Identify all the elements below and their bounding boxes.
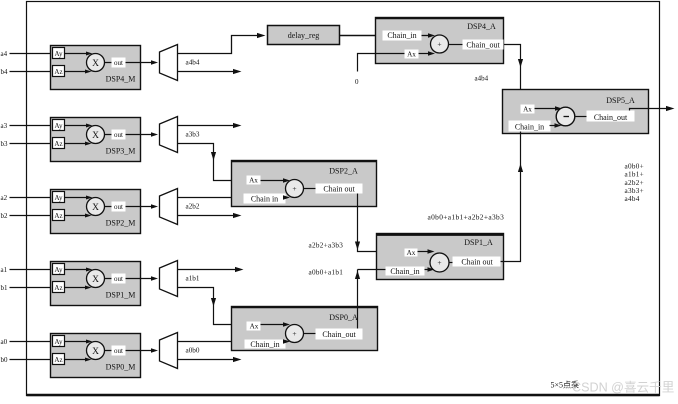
port out — [112, 346, 126, 356]
svg-text:a3b3+: a3b3+ — [625, 187, 645, 195]
wire a1b1 to DSP0_A Ax — [178, 288, 247, 325]
port Ay — [53, 48, 65, 59]
svg-text:Ay: Ay — [55, 194, 63, 202]
svg-text:DSP3_M: DSP3_M — [106, 147, 136, 156]
wire a4b4 mux bottom stub — [178, 71, 238, 73]
svg-text:Az: Az — [54, 284, 62, 292]
wire multiplier to out and mux — [105, 206, 154, 208]
adder + of DSP2_A — [286, 180, 304, 198]
wire multiplier to out and mux — [105, 62, 154, 64]
wire adder to Chain_out — [449, 44, 463, 46]
svg-text:DSP2_M: DSP2_M — [106, 219, 136, 228]
svg-text:DSP1_A: DSP1_A — [464, 238, 493, 247]
wire Ay to multiplier — [65, 269, 90, 271]
port Ax of DSP4_A — [405, 50, 419, 59]
mux 3 — [160, 117, 178, 153]
wire Chain_in to adder — [550, 125, 559, 127]
wire delay_reg to DSP4_A Chain_in — [340, 35, 383, 37]
mux 0 — [160, 333, 178, 369]
wire Chain_in to adder — [425, 269, 432, 271]
wire a0b0 to DSP0_A Chain_in — [178, 341, 245, 343]
svg-text:a0b0: a0b0 — [186, 347, 200, 355]
wire Az to multiplier — [65, 215, 89, 217]
wire adder to Chain_out — [304, 188, 316, 190]
svg-text:a3b3: a3b3 — [186, 131, 200, 139]
svg-text:DSP5_A: DSP5_A — [606, 96, 635, 105]
svg-text:a4b4: a4b4 — [475, 75, 489, 83]
svg-text:a1: a1 — [1, 266, 8, 274]
wire a3 to Ay — [10, 125, 53, 127]
mux 2 — [160, 189, 178, 225]
wire Chain_in to adder — [422, 35, 432, 37]
svg-text:Ay: Ay — [55, 338, 63, 346]
wire DSP5_A Chain_out to result output — [630, 109, 671, 111]
svg-text:Ax: Ax — [250, 322, 259, 330]
svg-text:X: X — [92, 59, 99, 69]
port Chain_out of DSP2_A — [316, 184, 363, 194]
DSP multiplier block DSP0_M — [51, 334, 141, 378]
DSP multiplier block DSP3_M — [51, 118, 141, 162]
wire Ay to multiplier — [65, 53, 90, 55]
svg-text:b1: b1 — [1, 284, 9, 292]
port Ay — [53, 336, 65, 347]
port out — [112, 274, 126, 284]
adder block DSP5_A — [503, 90, 649, 134]
svg-text:X: X — [92, 347, 99, 357]
wire Ay to multiplier — [65, 197, 90, 199]
wire Az to multiplier — [65, 359, 89, 361]
port out — [112, 58, 126, 68]
wire Ax to adder — [418, 251, 432, 253]
port Ay — [53, 192, 65, 203]
svg-text:0: 0 — [355, 78, 359, 86]
DSP multiplier block DSP2_M — [51, 190, 141, 234]
port Ay — [53, 120, 65, 131]
svg-text:b2: b2 — [1, 212, 9, 220]
svg-text:Ax: Ax — [407, 249, 416, 257]
svg-text:Az: Az — [54, 356, 62, 364]
svg-text:Ay: Ay — [55, 266, 63, 274]
adder + of DSP0_A — [286, 325, 304, 343]
DSP multiplier block DSP1_M — [51, 262, 141, 306]
wire Ax to adder — [261, 180, 287, 182]
svg-text:a2b2+a3b3: a2b2+a3b3 — [309, 241, 344, 249]
port Az — [53, 210, 65, 221]
port Az — [53, 66, 65, 77]
wire a0 to Ay — [10, 341, 53, 343]
svg-text:Ax: Ax — [249, 177, 258, 185]
port Chain_out of DSP4_A — [463, 40, 504, 50]
svg-text:a2: a2 — [1, 194, 8, 202]
wire b4 to Az — [10, 71, 53, 73]
multiplier X of DSP3_M — [87, 126, 105, 144]
wire adder to Chain_out — [450, 262, 453, 264]
svg-text:Ay: Ay — [55, 50, 63, 58]
port Ax of DSP0_A — [247, 322, 261, 331]
port Az — [53, 354, 65, 365]
wire a2 to Ay — [10, 197, 53, 199]
svg-text:CSDN @喜云千里: CSDN @喜云千里 — [572, 381, 674, 395]
port Chain_out of DSP5_A — [587, 111, 635, 122]
wire DSP1_A Chain_out up to DSP5_A Chain_in — [501, 132, 521, 262]
svg-text:a0b0+: a0b0+ — [625, 163, 645, 171]
svg-text:Ax: Ax — [407, 51, 416, 59]
multiplier X of DSP1_M — [87, 270, 105, 288]
svg-text:a0b0+a1b1+a2b2+a3b3: a0b0+a1b1+a2b2+a3b3 — [428, 212, 505, 221]
wire a2b2 to DSP2_A Chain_in — [178, 197, 244, 199]
svg-text:DSP0_M: DSP0_M — [106, 363, 136, 372]
port Chain_out of DSP1_A — [453, 257, 501, 267]
svg-text:DSP0_A: DSP0_A — [329, 313, 358, 322]
multiplier X of DSP2_M — [87, 198, 105, 216]
wire a1 to Ay — [10, 269, 53, 271]
svg-text:Chain_in: Chain_in — [387, 31, 416, 40]
wire Ax to adder — [419, 53, 432, 55]
svg-text:Chain_in: Chain_in — [515, 122, 544, 131]
svg-text:Chain_out: Chain_out — [466, 40, 500, 49]
svg-text:Chain_out: Chain_out — [594, 113, 628, 122]
wire Ay to multiplier — [65, 125, 90, 127]
svg-text:+: + — [292, 329, 296, 338]
svg-text:a0b0+a1b1: a0b0+a1b1 — [309, 269, 344, 277]
svg-text:a1b1+: a1b1+ — [625, 171, 645, 179]
svg-text:Az: Az — [54, 68, 62, 76]
svg-text:+: + — [437, 40, 441, 49]
wire b1 to Az — [10, 287, 53, 289]
wire adder to Chain_out — [576, 116, 587, 118]
multiplier X of DSP4_M — [87, 54, 105, 72]
adder + of DSP4_A — [431, 35, 449, 53]
wire Ax to adder — [261, 324, 287, 326]
svg-text:DSP1_M: DSP1_M — [106, 291, 136, 300]
svg-text:out: out — [114, 347, 123, 355]
mux 4 — [160, 45, 178, 81]
port Ax of DSP2_A — [247, 176, 261, 185]
wire b3 to Az — [10, 143, 53, 145]
svg-text:Ay: Ay — [55, 122, 63, 130]
svg-text:a3: a3 — [1, 122, 8, 130]
svg-text:a2b2: a2b2 — [186, 203, 200, 211]
port out — [112, 202, 126, 212]
svg-text:Chain_out: Chain_out — [322, 330, 356, 339]
port Ax of DSP1_A — [405, 249, 418, 257]
adder + of DSP1_A — [430, 253, 449, 272]
svg-text:out: out — [114, 131, 123, 139]
adder block DSP4_A — [376, 18, 504, 64]
svg-text:Az: Az — [54, 212, 62, 220]
svg-text:b0: b0 — [1, 356, 9, 364]
adder of DSP5_A — [556, 107, 575, 126]
svg-text:+: + — [292, 184, 296, 193]
wire Az to multiplier — [65, 143, 89, 145]
wire a3b3 mux top stub — [178, 125, 238, 127]
svg-text:Ax: Ax — [523, 105, 532, 113]
svg-text:Chain_in: Chain_in — [390, 267, 419, 276]
svg-text:Chain_in: Chain_in — [250, 340, 279, 349]
wire Chain_in to adder — [283, 195, 290, 199]
adder block DSP0_A — [232, 307, 378, 351]
svg-text:delay_reg: delay_reg — [288, 31, 320, 40]
wire multiplier to out and mux — [105, 278, 154, 280]
wire DSP4_A Chain_out to DSP5_A Ax — [504, 45, 521, 105]
svg-text:a1b1: a1b1 — [186, 275, 200, 283]
svg-text:out: out — [114, 203, 123, 211]
wire a4 to Ay — [10, 53, 53, 55]
wire Chain_in to adder — [283, 339, 290, 343]
wire DSP0_A Chain_out up to DSP1_A Chain_in — [357, 270, 359, 329]
adder block DSP1_A — [377, 234, 504, 280]
svg-text:DSP2_A: DSP2_A — [329, 167, 358, 176]
svg-text:a4b4: a4b4 — [186, 59, 200, 67]
port Chain_in of DSP4_A — [383, 31, 422, 41]
svg-text:DSP4_M: DSP4_M — [106, 75, 136, 84]
svg-text:a4: a4 — [1, 50, 8, 58]
svg-text:DSP4_A: DSP4_A — [467, 22, 496, 31]
svg-text:a2b2+: a2b2+ — [625, 179, 645, 187]
svg-text:Chain out: Chain out — [461, 257, 493, 266]
svg-text:+: + — [437, 258, 441, 267]
port out — [112, 130, 126, 140]
svg-text:a0: a0 — [1, 338, 8, 346]
wire multiplier to out and mux — [105, 350, 154, 352]
svg-text:out: out — [114, 59, 123, 67]
wire a1b1 mux top stub — [178, 269, 240, 271]
wire b0 to Az — [10, 359, 53, 361]
wire adder to Chain_out — [304, 333, 316, 335]
wire 0 to Ax — [358, 54, 405, 72]
port Ay — [53, 264, 65, 275]
mux 1 — [160, 261, 178, 297]
wire a2b2 mux bottom stub — [178, 215, 238, 217]
svg-text:X: X — [92, 203, 99, 213]
svg-text:Chain out: Chain out — [323, 184, 355, 193]
wire DSP1_A Chain_in input — [358, 269, 386, 271]
wire Ax to adder — [535, 108, 559, 110]
wire Az to multiplier — [65, 71, 89, 73]
wire a0b0 mux bottom stub — [178, 359, 238, 361]
svg-text:b4: b4 — [1, 68, 9, 76]
port Chain_in of DSP5_A — [509, 121, 551, 132]
svg-text:Az: Az — [54, 140, 62, 148]
adder block DSP2_A — [232, 161, 377, 207]
DSP multiplier block DSP4_M — [51, 46, 141, 90]
wire DSP2_A Chain_out down to DSP1_A Ax — [358, 194, 405, 252]
port Chain_in of DSP1_A — [386, 267, 425, 276]
svg-text:b3: b3 — [1, 140, 9, 148]
svg-text:X: X — [92, 131, 99, 141]
port Az — [53, 282, 65, 293]
register delay_reg — [268, 26, 340, 45]
port Chain_in of DSP2_A — [244, 194, 286, 204]
wire b2 to Az — [10, 215, 53, 217]
multiplier X of DSP0_M — [87, 342, 105, 360]
port Az — [53, 138, 65, 149]
svg-text:out: out — [114, 275, 123, 283]
wire Ay to multiplier — [65, 341, 90, 343]
wire Az to multiplier — [65, 287, 89, 289]
port Chain_in of DSP0_A — [245, 340, 286, 349]
wire multiplier to out and mux — [105, 134, 154, 136]
port Ax of DSP5_A — [521, 105, 535, 114]
svg-text:a4b4: a4b4 — [625, 195, 640, 203]
svg-text:Chain in: Chain in — [251, 194, 278, 203]
wire a4b4 mux top output to delay_reg — [178, 36, 262, 54]
port Chain_out of DSP0_A — [316, 329, 363, 340]
wire a3b3 to DSP2_A Ax — [178, 144, 247, 181]
svg-text:X: X — [92, 275, 99, 285]
